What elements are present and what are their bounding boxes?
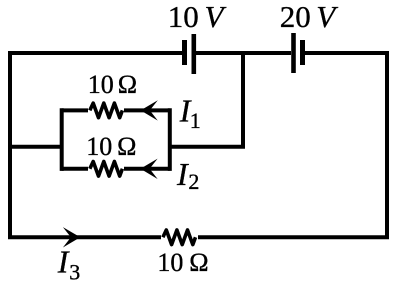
svg-text:1: 1 bbox=[190, 108, 201, 133]
battery B1 10V tall plate bbox=[192, 34, 197, 74]
svg-text:Ω: Ω bbox=[118, 70, 137, 99]
arrow I1 (left-pointing on top branch) bbox=[141, 100, 158, 120]
wire bottom branch bbox=[62, 167, 170, 171]
svg-text:10: 10 bbox=[88, 70, 114, 99]
svg-text:Ω: Ω bbox=[189, 248, 208, 277]
wire left vertical bbox=[8, 51, 12, 239]
wire box left edge bbox=[60, 108, 64, 171]
battery B1 10V short plate bbox=[182, 40, 187, 65]
wire left stub to box bbox=[10, 145, 62, 149]
wire box right edge bbox=[168, 108, 172, 171]
resistor R3 (bottom wire 10 ohm) bbox=[163, 230, 196, 245]
wire top branch bbox=[62, 108, 170, 112]
resistor R1 (top branch 10 ohm) bbox=[90, 103, 123, 118]
arrow I3 (right-pointing on bottom wire) bbox=[63, 227, 80, 247]
wire right vertical bbox=[385, 51, 389, 239]
wire top segment C bbox=[305, 51, 389, 55]
wire bottom segment right bbox=[198, 235, 389, 239]
battery B2 20V tall plate bbox=[291, 33, 296, 73]
wire vertical drop to node (x=243) and stub to box right bbox=[170, 53, 243, 147]
arrow I2 (left-pointing on bottom branch) bbox=[140, 159, 157, 179]
svg-text:V: V bbox=[316, 0, 338, 34]
svg-text:V: V bbox=[205, 0, 227, 34]
svg-text:Ω: Ω bbox=[117, 132, 136, 161]
svg-text:10: 10 bbox=[86, 132, 112, 161]
battery B2 20V short plate bbox=[300, 40, 305, 65]
wire bottom segment left bbox=[8, 235, 161, 239]
svg-text:20: 20 bbox=[280, 0, 311, 34]
svg-text:I: I bbox=[176, 156, 189, 192]
resistor R2 (bottom branch 10 ohm) bbox=[90, 162, 123, 177]
svg-text:10: 10 bbox=[168, 0, 199, 34]
wire top segment B (between batteries) bbox=[196, 51, 291, 55]
svg-text:I: I bbox=[57, 244, 70, 280]
svg-text:2: 2 bbox=[188, 169, 199, 194]
svg-text:3: 3 bbox=[69, 259, 80, 284]
wire top segment A bbox=[8, 51, 182, 55]
svg-text:10: 10 bbox=[157, 248, 183, 277]
